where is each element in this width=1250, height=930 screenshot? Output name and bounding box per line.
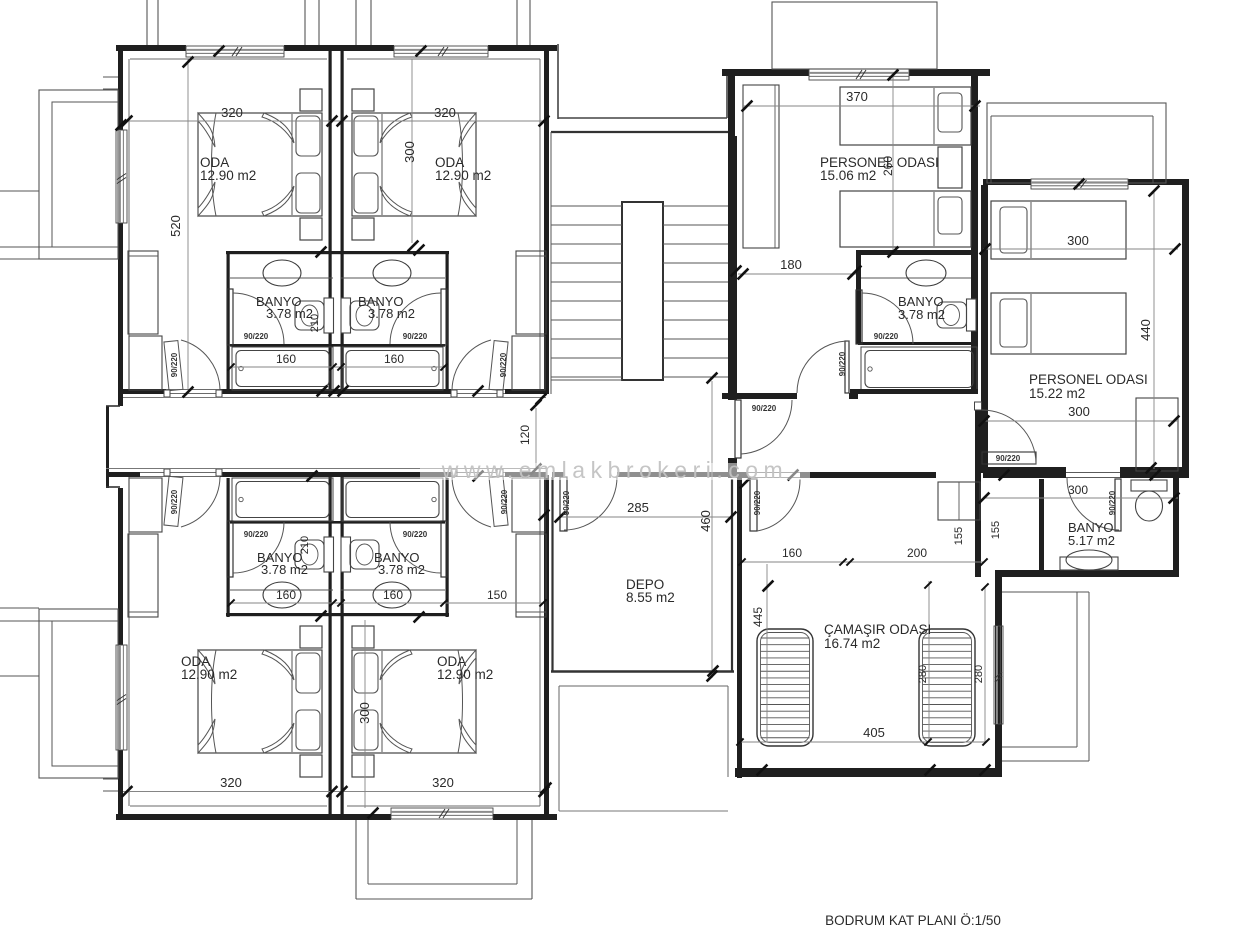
svg-text:200: 200 <box>907 546 927 560</box>
svg-text:3.78 m2: 3.78 m2 <box>261 562 308 577</box>
svg-text:520: 520 <box>168 215 183 237</box>
svg-text:90/220: 90/220 <box>752 404 777 413</box>
svg-text:90/220: 90/220 <box>244 530 269 539</box>
svg-text:405: 405 <box>863 725 885 740</box>
svg-text:90/220: 90/220 <box>1108 490 1117 515</box>
svg-text:280: 280 <box>973 665 985 683</box>
svg-text:3.78 m2: 3.78 m2 <box>378 562 425 577</box>
svg-text:90/220: 90/220 <box>170 489 179 514</box>
svg-text:90/220: 90/220 <box>996 454 1021 463</box>
svg-text:BODRUM KAT PLANI Ö:1/50: BODRUM KAT PLANI Ö:1/50 <box>825 913 1001 928</box>
svg-text:120: 120 <box>518 425 532 445</box>
svg-text:160: 160 <box>276 352 296 366</box>
svg-text:90/220: 90/220 <box>403 530 428 539</box>
svg-text:320: 320 <box>434 105 456 120</box>
svg-text:12.90 m2: 12.90 m2 <box>200 168 256 183</box>
svg-text:90/220: 90/220 <box>753 490 762 515</box>
svg-text:12.90 m2: 12.90 m2 <box>181 667 237 682</box>
svg-text:90/220: 90/220 <box>403 332 428 341</box>
svg-text:445: 445 <box>751 607 765 627</box>
svg-text:90/220: 90/220 <box>170 352 179 377</box>
svg-text:440: 440 <box>1138 319 1153 341</box>
svg-text:320: 320 <box>220 775 242 790</box>
svg-text:ÇAMAŞIR ODASI: ÇAMAŞIR ODASI <box>824 622 931 637</box>
svg-text:15.22 m2: 15.22 m2 <box>1029 386 1085 401</box>
svg-text:150: 150 <box>487 588 507 602</box>
svg-text:90/220: 90/220 <box>562 490 571 515</box>
svg-text:160: 160 <box>782 546 802 560</box>
svg-text:300: 300 <box>357 702 372 724</box>
svg-text:15.06 m2: 15.06 m2 <box>820 168 876 183</box>
svg-text:3.78 m2: 3.78 m2 <box>266 306 313 321</box>
svg-text:90/220: 90/220 <box>838 351 847 376</box>
svg-text:300: 300 <box>1068 404 1090 419</box>
svg-text:155: 155 <box>990 521 1002 539</box>
svg-text:300: 300 <box>1068 483 1088 497</box>
svg-text:320: 320 <box>221 105 243 120</box>
svg-text:90/220: 90/220 <box>244 332 269 341</box>
svg-text:16.74 m2: 16.74 m2 <box>824 636 880 651</box>
svg-text:12.90 m2: 12.90 m2 <box>437 667 493 682</box>
svg-text:280: 280 <box>917 665 929 683</box>
svg-text:3.78 m2: 3.78 m2 <box>898 307 945 322</box>
svg-text:370: 370 <box>846 89 868 104</box>
svg-text:8.55 m2: 8.55 m2 <box>626 590 675 605</box>
svg-text:90/220: 90/220 <box>874 332 899 341</box>
svg-text:460: 460 <box>698 510 713 532</box>
svg-text:PERSONEL ODASI: PERSONEL ODASI <box>1029 372 1148 387</box>
svg-text:www.emlakbrokeri.com: www.emlakbrokeri.com <box>441 457 788 483</box>
svg-text:320: 320 <box>432 775 454 790</box>
svg-text:155: 155 <box>953 527 965 545</box>
svg-text:300: 300 <box>1067 233 1089 248</box>
svg-text:12.90 m2: 12.90 m2 <box>435 168 491 183</box>
svg-text:90/220: 90/220 <box>499 352 508 377</box>
svg-text:160: 160 <box>383 588 403 602</box>
svg-text:3.78 m2: 3.78 m2 <box>368 306 415 321</box>
svg-text:90/220: 90/220 <box>500 489 509 514</box>
svg-text:5.17 m2: 5.17 m2 <box>1068 533 1115 548</box>
svg-text:285: 285 <box>627 500 649 515</box>
svg-text:180: 180 <box>780 257 802 272</box>
svg-text:160: 160 <box>384 352 404 366</box>
svg-text:160: 160 <box>276 588 296 602</box>
svg-text:300: 300 <box>402 141 417 163</box>
